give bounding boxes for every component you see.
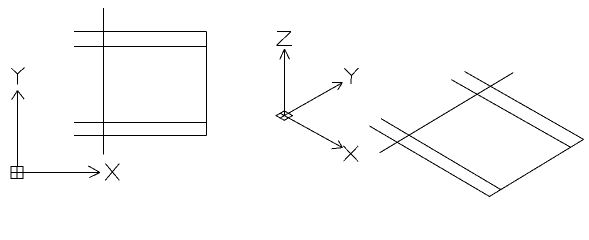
axis Y arrowhead (3D icon) xyxy=(332,82,342,90)
axis X shaft (3D icon) xyxy=(284,116,342,148)
wire bottom inner edge xyxy=(74,122,207,124)
axis X arrowhead (2D icon) xyxy=(88,166,100,178)
wire bottom outer edge xyxy=(74,135,207,137)
wire bottom inner edge (isometric) xyxy=(381,119,500,190)
wire bottom outer edge (isometric) xyxy=(370,126,490,197)
axis X arrowhead (3D icon) xyxy=(332,140,343,148)
node X label (2D icon) xyxy=(105,164,119,181)
wire right edge xyxy=(206,32,208,136)
axis X shaft (2D icon) xyxy=(23,172,100,174)
origin box rhombus (3D icon) xyxy=(276,111,292,120)
axis Y arrowhead (2D icon) xyxy=(12,91,25,100)
wire vertical construction line (left edge extended) xyxy=(103,8,105,155)
node X label (3D icon) xyxy=(343,146,358,162)
node Z label (3D icon) xyxy=(277,32,293,46)
wire top inner edge (isometric) xyxy=(451,80,570,148)
axis Y shaft (2D icon) xyxy=(17,91,19,167)
wire top outer edge xyxy=(74,31,207,33)
wire left-edge construction line (isometric) xyxy=(380,73,514,153)
wire top outer edge (isometric) xyxy=(465,72,584,140)
node Y label (2D icon) xyxy=(11,68,24,85)
node Y label (3D icon) xyxy=(344,68,358,84)
wire right edge (isometric) xyxy=(489,139,583,196)
axis Y shaft (3D icon) xyxy=(284,83,342,116)
origin box (2D icon) xyxy=(11,167,23,179)
axis Z shaft (3D icon) xyxy=(284,49,286,116)
wire top inner edge xyxy=(74,46,207,48)
axis Z arrowhead (3D icon) xyxy=(280,49,290,60)
